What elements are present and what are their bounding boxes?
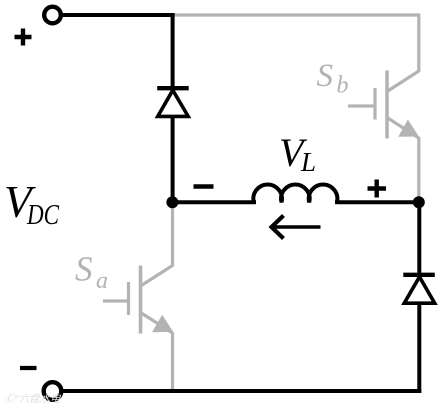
wire: black vertical from D2 to bottom rail [417, 303, 421, 394]
transistor Q Sb (gray IGBT) [348, 71, 419, 139]
emitter lead [387, 118, 419, 139]
label minus (left of inductor) [194, 184, 214, 188]
emitter arrow of Sb [398, 120, 419, 137]
wire: gray vertical node A down to Sa collector [171, 202, 174, 267]
diode D2 (bottom right leg) [403, 275, 435, 303]
gate lead [348, 104, 375, 107]
node A junction dot [166, 196, 178, 208]
wire: bottom black horizontal rail [62, 389, 421, 393]
current arrow (pointing left, under inductor) [272, 216, 321, 239]
svg-text:a: a [96, 268, 108, 294]
inductor L [253, 184, 337, 202]
label plus (right of inductor) [368, 180, 387, 198]
emitter arrow of Sa [152, 315, 173, 333]
wire: gray vertical Sb emitter to node B [417, 137, 420, 202]
wire: black vertical node B to diode D2 [417, 202, 421, 274]
wire: inductor to node B [335, 200, 419, 204]
label minus (bottom) [20, 366, 37, 370]
wire: node A to inductor [172, 200, 256, 204]
gate bar [127, 282, 130, 315]
body bar [139, 266, 143, 334]
svg-text:S: S [317, 58, 334, 94]
svg-text:L: L [300, 147, 316, 177]
wire: top black horizontal [61, 13, 175, 17]
body bar [385, 71, 389, 139]
svg-text:Ⓒ°六盘水电: Ⓒ°六盘水电 [4, 393, 61, 405]
diode D1 (top left leg) [157, 88, 189, 116]
wire: gray vertical Sa emitter to bottom rail [171, 332, 174, 391]
label + (top) [15, 29, 32, 46]
gate bar [373, 88, 376, 120]
wire: black vertical from D1 to node A [171, 116, 175, 202]
wire: gray top horizontal from node of V+ rail to Sb collector [172, 15, 419, 72]
wire: black vertical into diode D1 [171, 13, 175, 87]
emitter lead [141, 313, 173, 334]
svg-text:b: b [337, 73, 349, 99]
collector lead [141, 266, 173, 287]
terminal + (top left circle) [44, 7, 61, 24]
gate lead [103, 299, 129, 302]
svg-text:DC: DC [26, 200, 60, 231]
terminal - (bottom left circle) [44, 382, 62, 400]
svg-text:S: S [75, 250, 93, 289]
transistor Q Sa (gray IGBT) [103, 266, 173, 334]
node B junction dot [413, 196, 425, 208]
collector lead [387, 71, 419, 92]
